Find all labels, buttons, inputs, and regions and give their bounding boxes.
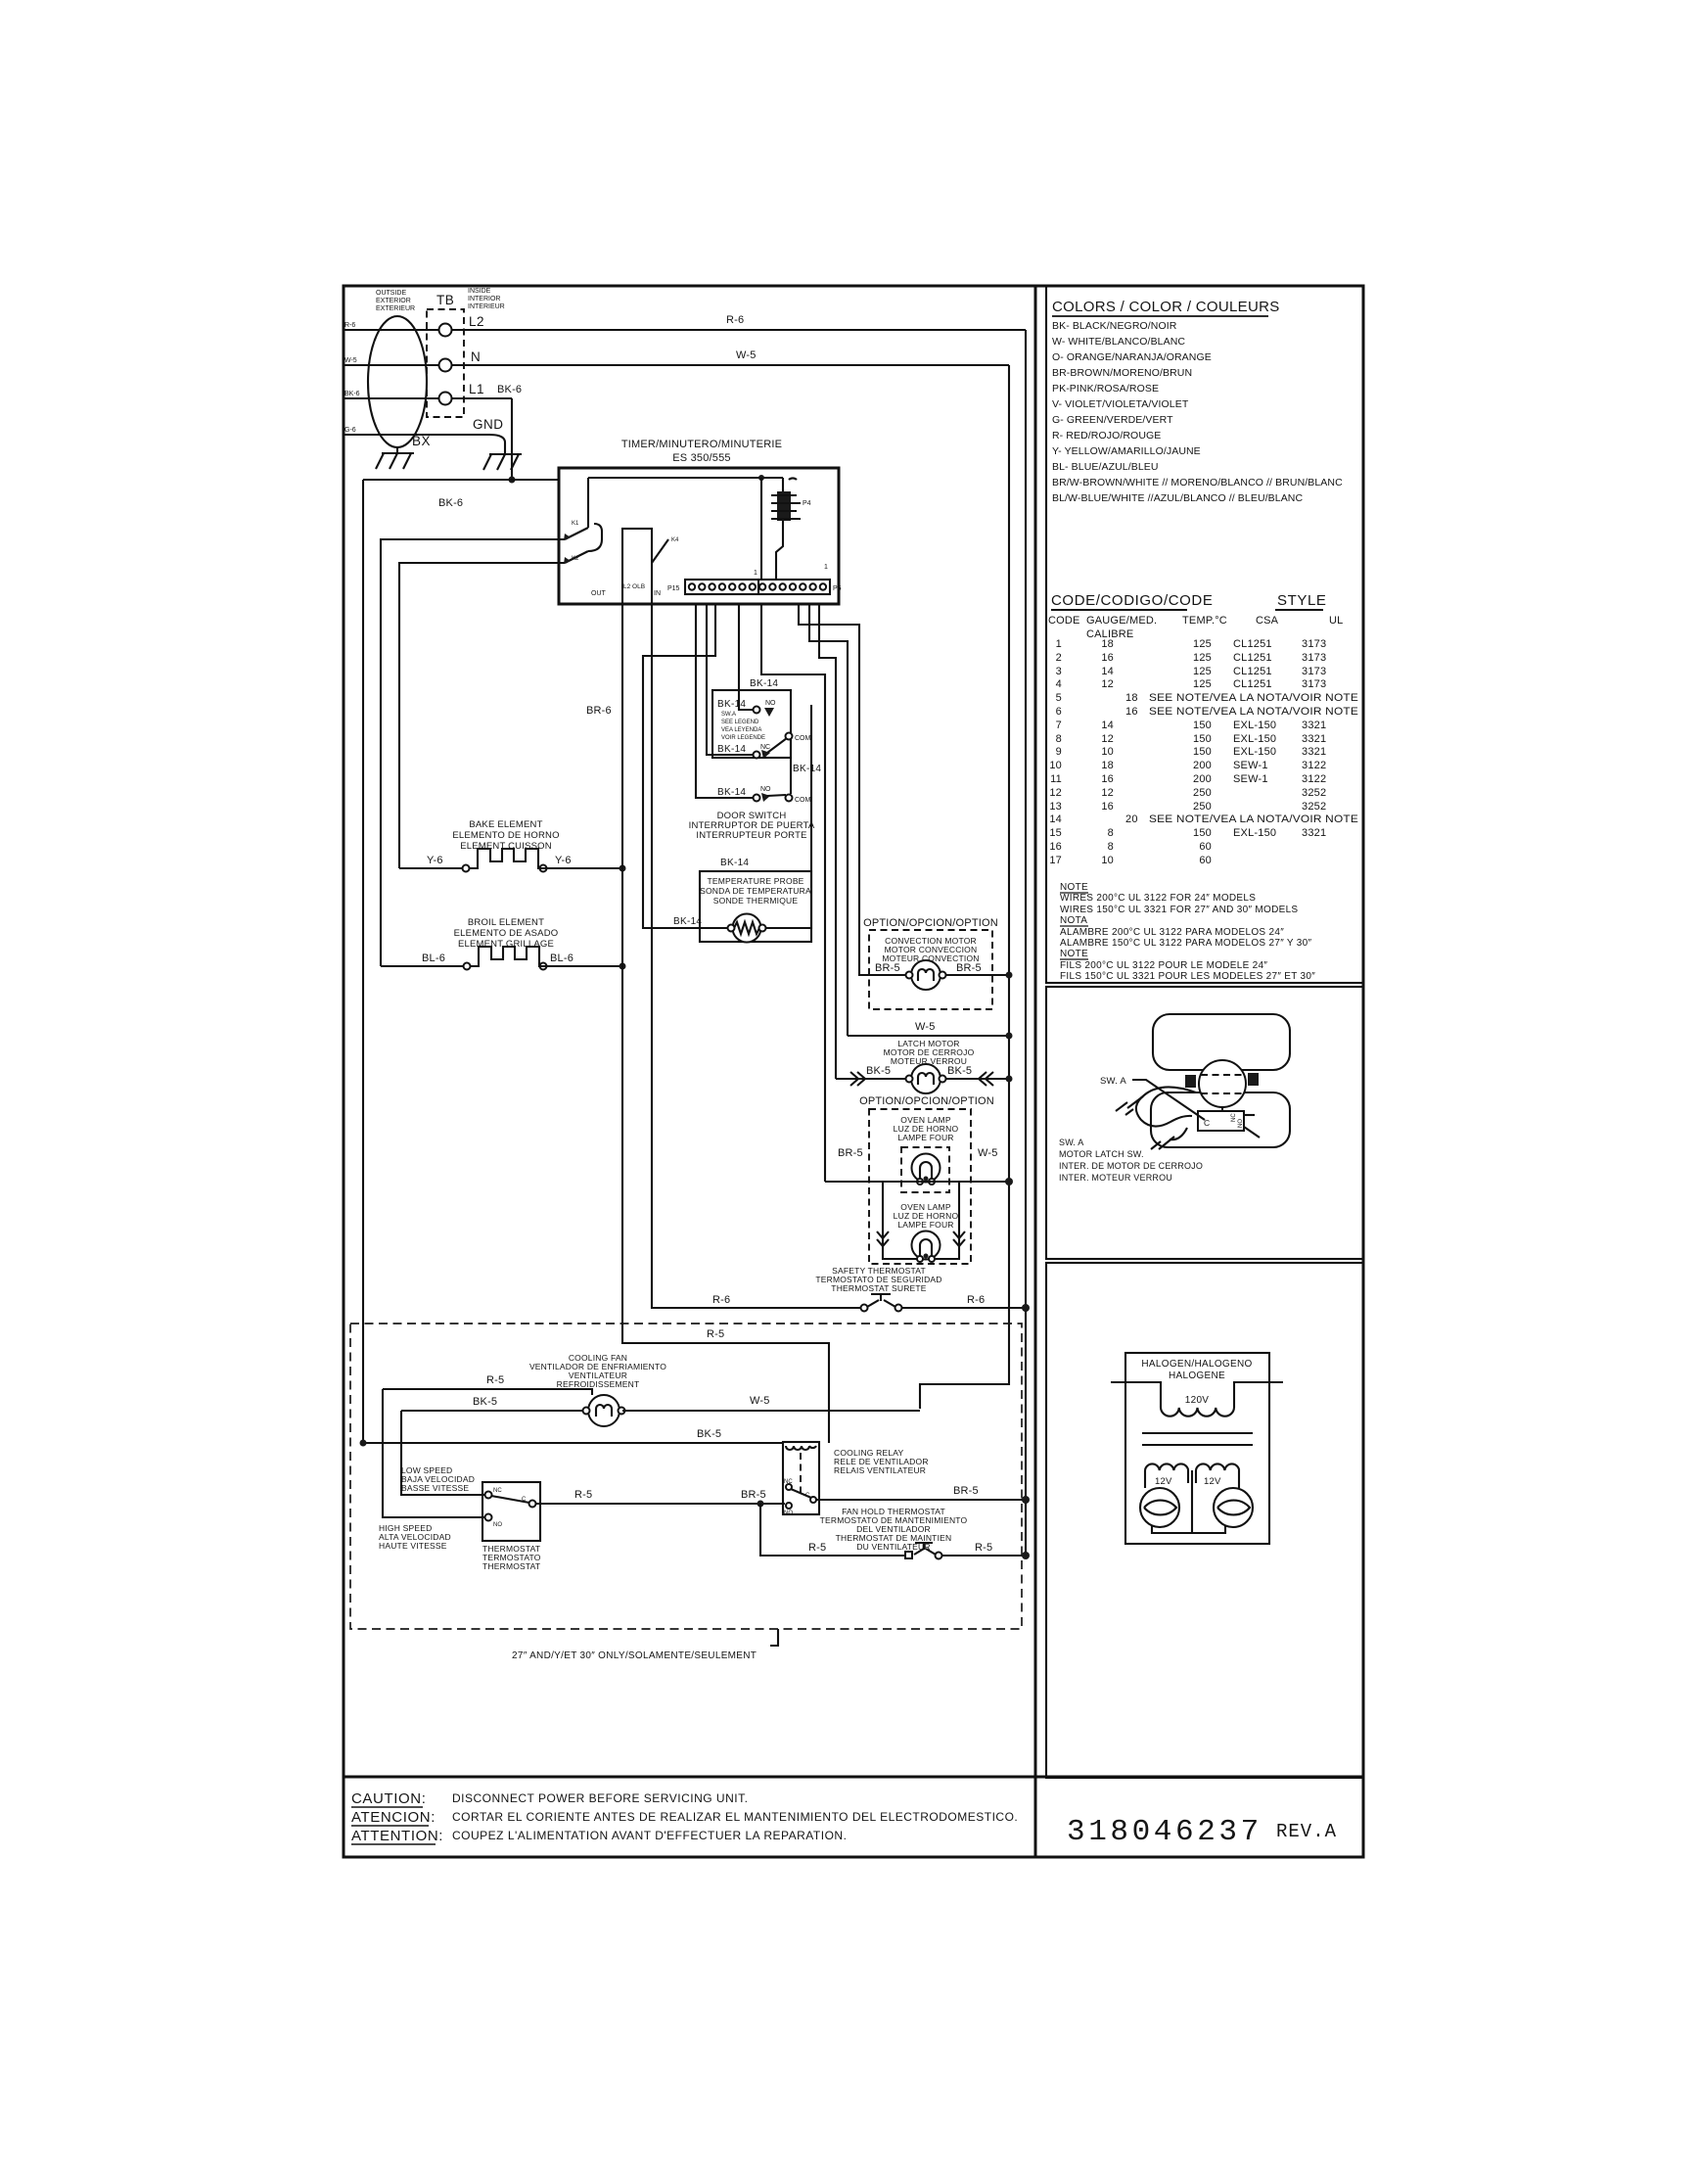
svg-text:EXTERIOR: EXTERIOR <box>376 298 411 304</box>
temperature probe sensor <box>733 914 761 943</box>
node convection to W-5 trunk <box>1006 972 1013 979</box>
svg-text:12V: 12V <box>1204 1476 1221 1487</box>
svg-text:W-5: W-5 <box>344 357 357 364</box>
wire latch left with connector <box>836 1078 905 1080</box>
svg-text:PK-PINK/ROSA/ROSE: PK-PINK/ROSA/ROSE <box>1052 383 1159 395</box>
wire fan hold line <box>760 1504 1026 1556</box>
node timer internal <box>758 475 764 481</box>
wire pin to convection motor <box>799 603 906 975</box>
motor latch switch caption <box>1059 1138 1203 1183</box>
halogen transformer box <box>1125 1353 1269 1544</box>
svg-text:BL- BLUE/AZUL/BLEU: BL- BLUE/AZUL/BLEU <box>1052 461 1159 473</box>
svg-text:NO: NO <box>1238 1119 1244 1128</box>
fan thermostat box <box>482 1482 540 1541</box>
svg-text:INSIDE: INSIDE <box>468 288 491 295</box>
svg-text:1: 1 <box>754 570 757 577</box>
svg-text:REFROIDISSEMENT: REFROIDISSEMENT <box>557 1379 640 1389</box>
svg-text:2: 2 <box>1056 652 1062 664</box>
svg-text:N: N <box>471 349 481 364</box>
svg-text:R- RED/ROJO/ROUGE: R- RED/ROJO/ROUGE <box>1052 430 1161 441</box>
svg-text:THERMOSTAT: THERMOSTAT <box>482 1561 540 1571</box>
wire broil right <box>546 965 622 967</box>
svg-text:BASSE VITESSE: BASSE VITESSE <box>401 1483 469 1493</box>
wire convection left <box>859 974 905 976</box>
wire probe right to door switch <box>765 705 811 928</box>
wire W-5 lamp line <box>825 1181 1009 1183</box>
inside label <box>468 288 505 310</box>
svg-text:L2 OLB: L2 OLB <box>623 583 645 590</box>
svg-text:120V: 120V <box>1185 1395 1210 1406</box>
svg-text:12: 12 <box>1049 787 1062 799</box>
node safety to trunk <box>1022 1304 1030 1312</box>
svg-text:EXTERIEUR: EXTERIEUR <box>376 305 415 312</box>
svg-text:HALOGEN/HALOGENO: HALOGEN/HALOGENO <box>1141 1359 1252 1370</box>
transformer primary coil <box>1161 1408 1234 1417</box>
dashed enclosure 27 and 30 inch only <box>350 1324 1022 1629</box>
svg-text:150: 150 <box>1193 720 1212 731</box>
svg-text:BK- BLACK/NEGRO/NOIR: BK- BLACK/NEGRO/NOIR <box>1052 320 1177 332</box>
svg-text:8: 8 <box>1108 827 1114 839</box>
svg-text:SEE LEGEND: SEE LEGEND <box>721 720 759 725</box>
svg-text:R-6: R-6 <box>344 322 355 329</box>
legend box C halogen <box>1046 1263 1363 1778</box>
wire latch right with connector <box>946 1078 1009 1080</box>
svg-text:BAKE ELEMENT: BAKE ELEMENT <box>469 819 542 830</box>
door switch COM upper <box>786 733 793 740</box>
svg-text:7: 7 <box>1056 720 1062 731</box>
svg-text:200: 200 <box>1193 760 1212 771</box>
svg-text:W-5: W-5 <box>750 1395 770 1407</box>
wire ground G-6 <box>344 435 505 450</box>
wire thermostat C to relay NO <box>536 1503 785 1505</box>
svg-text:O- ORANGE/NARANJA/ORANGE: O- ORANGE/NARANJA/ORANGE <box>1052 351 1212 363</box>
svg-text:EXL-150: EXL-150 <box>1233 827 1276 839</box>
terminal block TB dashed outline <box>427 309 464 417</box>
svg-text:P15: P15 <box>667 585 680 592</box>
node fan hold tap <box>757 1501 764 1508</box>
svg-text:EXL-150: EXL-150 <box>1233 720 1276 731</box>
svg-text:3321: 3321 <box>1302 827 1326 839</box>
transformer core <box>1142 1432 1253 1434</box>
svg-text:10: 10 <box>1101 746 1114 758</box>
svg-text:IN: IN <box>654 590 661 597</box>
svg-text:ALAMBRE 150°C UL 3122 PARA MOD: ALAMBRE 150°C UL 3122 PARA MODELOS 27″ Y… <box>1060 938 1312 949</box>
svg-text:EXL-150: EXL-150 <box>1233 746 1276 758</box>
svg-text:TEMP.°C: TEMP.°C <box>1182 615 1227 627</box>
wire W-5 neutral trunk <box>920 365 1009 1409</box>
wire pin to door switch NO row lower <box>696 603 755 798</box>
legend box B motor latch switch <box>1046 987 1363 1259</box>
wire BK-6 from L1 down <box>511 398 513 480</box>
svg-text:NOTA: NOTA <box>1060 915 1087 926</box>
svg-text:Y- YELLOW/AMARILLO/JAUNE: Y- YELLOW/AMARILLO/JAUNE <box>1052 445 1201 457</box>
svg-text:ATTENTION:: ATTENTION: <box>351 1828 443 1844</box>
svg-text:27″ AND/Y/ET 30″ ONLY/SOLAMENT: 27″ AND/Y/ET 30″ ONLY/SOLAMENTE/SEULEMEN… <box>512 1650 757 1661</box>
latch motor right terminal block <box>1248 1073 1259 1086</box>
svg-text:3173: 3173 <box>1302 666 1326 677</box>
latch assembly upper housing outline <box>1153 1014 1290 1070</box>
oven lamp 1 dashed box <box>901 1147 949 1192</box>
svg-text:G-6: G-6 <box>344 427 356 434</box>
node broil to trunk <box>620 963 626 970</box>
svg-text:STYLE: STYLE <box>1277 592 1327 609</box>
svg-text:CODE/CODIGO/CODE: CODE/CODIGO/CODE <box>1051 592 1213 609</box>
wire color code list <box>1052 320 1343 504</box>
node latch to W-5 trunk <box>1006 1076 1013 1083</box>
wire K2 feed <box>399 563 565 868</box>
svg-text:250: 250 <box>1193 801 1212 813</box>
svg-text:3173: 3173 <box>1302 638 1326 650</box>
timer pin strip <box>685 580 830 594</box>
svg-text:VOIR LEGENDE: VOIR LEGENDE <box>721 735 765 741</box>
svg-text:INTERRUPTEUR PORTE: INTERRUPTEUR PORTE <box>696 830 806 841</box>
timer contact K1 <box>565 478 588 539</box>
timer contact K4 <box>652 539 668 563</box>
svg-text:3321: 3321 <box>1302 733 1326 745</box>
divider line between schematic and legend column <box>1034 286 1037 1857</box>
svg-text:8: 8 <box>1056 733 1062 745</box>
wire rail N W-5 <box>344 364 1009 366</box>
wire door switch COM link <box>790 740 792 794</box>
svg-text:TEMPERATURE PROBE: TEMPERATURE PROBE <box>707 876 803 886</box>
svg-text:BK-14: BK-14 <box>720 858 749 868</box>
wire left trunk down to cooling relay <box>362 480 364 1443</box>
cooling relay box <box>783 1442 819 1514</box>
timer contact K2 <box>565 524 602 563</box>
svg-text:BR-6: BR-6 <box>586 705 612 717</box>
svg-text:UL: UL <box>1329 615 1343 627</box>
wire BK-6 horizontal into timer <box>363 479 559 481</box>
ground symbol BX <box>376 447 414 469</box>
svg-text:3122: 3122 <box>1302 760 1326 771</box>
svg-text:HALOGENE: HALOGENE <box>1169 1371 1225 1381</box>
svg-text:125: 125 <box>1193 638 1212 650</box>
latch motor body circle <box>1199 1060 1246 1107</box>
wire pin to latch motor <box>819 603 836 1079</box>
svg-text:CORTAR EL CORIENTE ANTES DE RE: CORTAR EL CORIENTE ANTES DE REALIZAR EL … <box>452 1810 1018 1824</box>
svg-text:EXL-150: EXL-150 <box>1233 733 1276 745</box>
svg-text:INTERIEUR: INTERIEUR <box>468 303 505 310</box>
svg-text:V- VIOLET/VIOLETA/VIOLET: V- VIOLET/VIOLETA/VIOLET <box>1052 398 1189 410</box>
svg-text:HAUTE VITESSE: HAUTE VITESSE <box>379 1541 447 1551</box>
motor latch switch SW.A body <box>1221 1107 1223 1111</box>
svg-text:GAUGE/MED.: GAUGE/MED. <box>1086 615 1157 627</box>
halogen lamp 1 <box>1140 1488 1179 1527</box>
node fan hold to trunk <box>1022 1552 1030 1559</box>
svg-text:125: 125 <box>1193 678 1212 690</box>
svg-text:R-5: R-5 <box>707 1328 724 1340</box>
svg-text:R-6: R-6 <box>712 1294 730 1306</box>
svg-text:OPTION/OPCION/OPTION: OPTION/OPCION/OPTION <box>859 1095 994 1107</box>
svg-text:318046237: 318046237 <box>1067 1815 1262 1849</box>
timer coil P4 <box>789 478 797 480</box>
wire NC low speed <box>401 1411 484 1495</box>
wire relay coil BK-5 <box>363 1442 783 1444</box>
svg-text:60: 60 <box>1199 855 1212 866</box>
svg-text:18SEE NOTE/VEA LA NOTA/VOIR NO: 18SEE NOTE/VEA LA NOTA/VOIR NOTE <box>1125 692 1358 704</box>
svg-text:150: 150 <box>1193 827 1212 839</box>
svg-text:BK-6: BK-6 <box>344 391 360 397</box>
svg-text:CAUTION:: CAUTION: <box>351 1790 426 1807</box>
svg-text:150: 150 <box>1193 746 1212 758</box>
svg-text:NO: NO <box>765 700 776 707</box>
svg-text:BK-6: BK-6 <box>497 384 522 395</box>
svg-text:200: 200 <box>1193 773 1212 785</box>
svg-text:INTER. MOTEUR VERROU: INTER. MOTEUR VERROU <box>1059 1173 1172 1183</box>
halogen lamp wiring <box>1145 1470 1239 1488</box>
svg-text:BK-14: BK-14 <box>750 678 778 689</box>
wire pin to W-5 link <box>809 603 848 1036</box>
wire R-6 trunk <box>1025 330 1027 1556</box>
svg-text:11: 11 <box>1050 773 1062 785</box>
latch motor left terminal block <box>1185 1075 1196 1088</box>
wire BR-6 trunk from timer OUT <box>622 604 829 1443</box>
svg-text:BK-14: BK-14 <box>717 744 746 755</box>
svg-text:P4: P4 <box>803 500 811 507</box>
svg-text:BR-5: BR-5 <box>838 1147 863 1159</box>
svg-text:BX: BX <box>412 434 431 448</box>
wire gauge code table rows <box>1049 638 1358 866</box>
svg-text:TB: TB <box>436 293 454 307</box>
svg-text:13: 13 <box>1049 801 1062 813</box>
fan hold thermostat switch <box>905 1552 912 1558</box>
svg-text:SW.A: SW.A <box>721 712 736 718</box>
svg-text:BK-5: BK-5 <box>947 1065 972 1077</box>
svg-text:1: 1 <box>1056 638 1062 650</box>
svg-text:12V: 12V <box>1155 1476 1172 1487</box>
svg-text:INTERIOR: INTERIOR <box>468 296 500 302</box>
latch wire harness <box>1136 1087 1196 1126</box>
svg-text:14: 14 <box>1101 666 1114 677</box>
svg-text:K1: K1 <box>572 521 579 527</box>
svg-text:ALAMBRE 200°C UL 3122 PARA MOD: ALAMBRE 200°C UL 3122 PARA MODELOS 24″ <box>1060 927 1284 938</box>
svg-text:BL-6: BL-6 <box>422 953 445 964</box>
svg-text:NC: NC <box>784 1479 793 1485</box>
svg-text:FILS 200°C UL 3122 POUR LE MO: FILS 200°C UL 3122 POUR LE MODELE 24″ <box>1060 960 1267 971</box>
wire fan W-5 return <box>622 1410 920 1412</box>
svg-text:R-5: R-5 <box>975 1542 992 1554</box>
wire K1 feed <box>381 539 565 966</box>
svg-text:MOTOR LATCH SW.: MOTOR LATCH SW. <box>1059 1149 1144 1159</box>
svg-text:20SEE NOTE/VEA LA NOTA/VOIR NO: 20SEE NOTE/VEA LA NOTA/VOIR NOTE <box>1125 813 1358 825</box>
svg-text:15: 15 <box>1049 827 1062 839</box>
svg-text:BK-5: BK-5 <box>473 1396 497 1408</box>
svg-text:16: 16 <box>1049 841 1062 853</box>
svg-text:NOTE: NOTE <box>1060 949 1088 959</box>
bake element heating coil <box>463 865 470 872</box>
node relay coil to left trunk <box>360 1440 367 1447</box>
svg-text:BR/W-BROWN/WHITE // MORENO/BLA: BR/W-BROWN/WHITE // MORENO/BLANCO // BRU… <box>1052 477 1343 488</box>
svg-text:10: 10 <box>1101 855 1114 866</box>
svg-text:3321: 3321 <box>1302 720 1326 731</box>
wire pin to oven lamps BR-5 <box>761 603 825 1182</box>
svg-text:ELEMENTO DE ASADO: ELEMENTO DE ASADO <box>454 928 559 939</box>
node relay out to R-6 trunk <box>1022 1496 1030 1504</box>
svg-text:SW. A: SW. A <box>1059 1138 1084 1147</box>
oven lamps dashed option box <box>869 1109 971 1264</box>
svg-text:125: 125 <box>1193 652 1212 664</box>
wire pin to temperature probe <box>643 603 729 928</box>
terminal N <box>439 359 452 372</box>
svg-text:BR-BROWN/MORENO/BRUN: BR-BROWN/MORENO/BRUN <box>1052 367 1192 379</box>
wire rail L2 R-6 <box>344 329 1026 331</box>
svg-text:COUPEZ L'ALIMENTATION AVANT D': COUPEZ L'ALIMENTATION AVANT D'EFFECTUER … <box>452 1829 847 1842</box>
svg-text:P5: P5 <box>833 585 842 592</box>
svg-text:W-5: W-5 <box>978 1147 998 1159</box>
svg-text:BK-6: BK-6 <box>438 497 463 509</box>
svg-text:NC: NC <box>760 744 770 751</box>
svg-text:18: 18 <box>1101 760 1114 771</box>
svg-text:ATENCION:: ATENCION: <box>351 1809 436 1826</box>
svg-text:LAMPE FOUR: LAMPE FOUR <box>897 1133 953 1142</box>
latch assembly lower housing outline <box>1151 1092 1290 1147</box>
svg-text:CL1251: CL1251 <box>1233 678 1272 690</box>
svg-text:Y-6: Y-6 <box>555 855 572 866</box>
wire code notes <box>1060 882 1315 982</box>
wire bake left <box>399 867 462 869</box>
svg-text:14: 14 <box>1049 813 1062 825</box>
node bake to trunk <box>620 865 626 872</box>
svg-text:W-5: W-5 <box>736 349 757 361</box>
svg-text:COM: COM <box>795 797 811 804</box>
svg-text:R-5: R-5 <box>808 1542 826 1554</box>
svg-text:16SEE NOTE/VEA LA NOTA/VOIR NO: 16SEE NOTE/VEA LA NOTA/VOIR NOTE <box>1125 706 1358 718</box>
svg-text:R-5: R-5 <box>574 1489 592 1501</box>
svg-text:BK-14: BK-14 <box>793 764 821 774</box>
svg-text:SW. A: SW. A <box>1100 1076 1126 1087</box>
svg-text:FILS 150°C UL 3321 POUR LES M: FILS 150°C UL 3321 POUR LES MODELES 27″ … <box>1060 971 1315 982</box>
svg-text:NO: NO <box>760 786 771 793</box>
node lamp line to W-5 trunk <box>1005 1178 1013 1185</box>
svg-text:DISCONNECT POWER BEFORE SERVIC: DISCONNECT POWER BEFORE SERVICING UNIT. <box>452 1791 748 1805</box>
timer internal wire to coil <box>588 478 783 491</box>
svg-text:125: 125 <box>1193 666 1212 677</box>
transformer secondary coils 12V <box>1145 1464 1239 1470</box>
svg-text:K2: K2 <box>572 556 579 562</box>
caution band top line <box>344 1776 1363 1779</box>
svg-text:W- WHITE/BLANCO/BLANC: W- WHITE/BLANCO/BLANC <box>1052 336 1185 348</box>
svg-text:R-6: R-6 <box>726 314 744 326</box>
wire pin to door switch NO row upper <box>739 603 753 710</box>
wire fan R-5 feed <box>383 1389 592 1395</box>
timer internal switch box L2 OLB <box>622 529 652 604</box>
svg-text:VEA LEYENDA: VEA LEYENDA <box>721 727 761 733</box>
svg-text:SEW-1: SEW-1 <box>1233 773 1268 785</box>
timer box ES 350/555 <box>559 468 839 604</box>
halogen lamp 2 <box>1214 1488 1253 1527</box>
svg-text:3173: 3173 <box>1302 678 1326 690</box>
svg-text:WIRES 200°C UL 3122 FOR 24″ MO: WIRES 200°C UL 3122 FOR 24″ MODELS <box>1060 893 1256 904</box>
enclosure pointer <box>770 1629 778 1646</box>
svg-text:WIRES 150°C UL 3321 FOR 27″ AN: WIRES 150°C UL 3321 FOR 27″ AND 30″ MODE… <box>1060 905 1298 915</box>
svg-text:6: 6 <box>1056 706 1062 718</box>
svg-text:OPTION/OPCION/OPTION: OPTION/OPCION/OPTION <box>863 917 998 929</box>
wire pin to door switch NC row <box>707 603 755 755</box>
svg-text:ELEMENTO DE HORNO: ELEMENTO DE HORNO <box>452 830 559 841</box>
svg-text:R-5: R-5 <box>486 1374 504 1386</box>
svg-text:1: 1 <box>824 564 828 571</box>
svg-text:BROIL ELEMENT: BROIL ELEMENT <box>468 917 544 928</box>
svg-text:NC: NC <box>1231 1113 1237 1122</box>
svg-text:Y-6: Y-6 <box>427 855 443 866</box>
wire safety to R-6 trunk <box>901 1307 1026 1309</box>
svg-text:3252: 3252 <box>1302 787 1326 799</box>
svg-text:SEW-1: SEW-1 <box>1233 760 1268 771</box>
legend box A colors and wire code table <box>1046 286 1363 983</box>
svg-text:10: 10 <box>1049 760 1062 771</box>
svg-text:NOTE: NOTE <box>1060 882 1088 893</box>
svg-text:RELAIS VENTILATEUR: RELAIS VENTILATEUR <box>834 1465 926 1475</box>
latch motor M <box>911 1064 941 1093</box>
svg-text:3122: 3122 <box>1302 773 1326 785</box>
svg-text:16: 16 <box>1101 773 1114 785</box>
switch legend note <box>721 712 765 741</box>
svg-text:3321: 3321 <box>1302 746 1326 758</box>
svg-text:SONDA DE TEMPERATURA: SONDA DE TEMPERATURA <box>700 886 811 896</box>
supply cable oval BX <box>368 316 427 447</box>
convection motor dashed option box <box>869 930 992 1009</box>
svg-text:LAMPE FOUR: LAMPE FOUR <box>897 1220 953 1230</box>
svg-text:INTER. DE MOTOR DE CERROJO: INTER. DE MOTOR DE CERROJO <box>1059 1161 1203 1171</box>
svg-text:3252: 3252 <box>1302 801 1326 813</box>
svg-text:GND: GND <box>473 417 504 432</box>
svg-text:L2: L2 <box>469 314 484 329</box>
svg-text:3173: 3173 <box>1302 652 1326 664</box>
svg-text:250: 250 <box>1193 787 1212 799</box>
svg-text:12: 12 <box>1101 733 1114 745</box>
terminal L2 <box>439 324 452 337</box>
svg-text:BK-14: BK-14 <box>717 787 746 798</box>
svg-text:5: 5 <box>1056 692 1062 704</box>
svg-text:NC: NC <box>493 1488 502 1494</box>
terminal L1 <box>439 393 452 405</box>
svg-text:NO: NO <box>493 1522 502 1528</box>
wire W-5 link <box>848 1035 1009 1037</box>
svg-text:16: 16 <box>1101 652 1114 664</box>
svg-text:REV.A: REV.A <box>1276 1821 1337 1842</box>
oven lamp 2 <box>912 1231 941 1260</box>
svg-text:THERMOSTAT SURETE: THERMOSTAT SURETE <box>831 1283 927 1293</box>
svg-text:BR-5: BR-5 <box>953 1485 979 1497</box>
wire safety feed trunk from timer IN <box>652 604 864 1308</box>
svg-text:OUTSIDE: OUTSIDE <box>376 290 406 297</box>
svg-text:BK-5: BK-5 <box>697 1428 721 1440</box>
svg-text:BL/W-BLUE/WHITE //AZUL/BLANCO: BL/W-BLUE/WHITE //AZUL/BLANCO // BLEU/BL… <box>1052 492 1303 504</box>
svg-text:BK-5: BK-5 <box>866 1065 891 1077</box>
node BK-6 junction <box>509 477 516 484</box>
svg-text:18: 18 <box>1101 638 1114 650</box>
svg-text:4: 4 <box>1056 678 1062 690</box>
svg-text:12: 12 <box>1101 678 1114 690</box>
wire convection right <box>946 974 1009 976</box>
wire fan BK-5 feed <box>401 1410 586 1412</box>
svg-text:SONDE THERMIQUE: SONDE THERMIQUE <box>713 896 799 906</box>
svg-text:60: 60 <box>1199 841 1212 853</box>
wire relay C output BR-5 <box>816 1499 1026 1501</box>
svg-text:ES 350/555: ES 350/555 <box>672 452 731 464</box>
outside label <box>376 290 415 312</box>
svg-text:150: 150 <box>1193 733 1212 745</box>
svg-text:OUT: OUT <box>591 590 607 597</box>
svg-text:TIMER/MINUTERO/MINUTERIE: TIMER/MINUTERO/MINUTERIE <box>621 439 782 450</box>
node W-5 link <box>1006 1033 1013 1040</box>
svg-text:CL1251: CL1251 <box>1233 652 1272 664</box>
svg-text:16: 16 <box>1101 801 1114 813</box>
svg-text:CODE: CODE <box>1048 615 1080 627</box>
svg-text:3: 3 <box>1056 666 1062 677</box>
ground symbol GND <box>483 450 522 470</box>
svg-text:K4: K4 <box>671 537 679 543</box>
